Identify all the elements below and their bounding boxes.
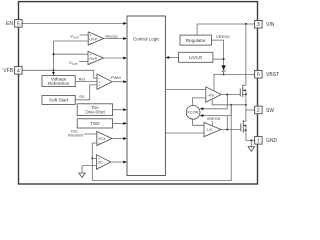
wire LS source to GND pin	[246, 126, 255, 141]
wire UVLO sense	[213, 58, 224, 60]
wire V_UVP to UVP	[80, 34, 89, 36]
svg-text:VUVP: VUVP	[70, 34, 78, 40]
wire ZC minus to ground	[82, 166, 96, 173]
wire UVLO to control logic	[168, 57, 179, 59]
TSD box	[77, 119, 112, 128]
svg-text:+: +	[89, 53, 91, 57]
ground (analog)	[79, 173, 85, 178]
svg-text:VREG5: VREG5	[216, 34, 230, 39]
svg-text:4: 4	[17, 68, 20, 74]
pin VIN	[255, 21, 263, 29]
svg-text:VIN: VIN	[266, 22, 275, 28]
comparator UVP	[88, 32, 103, 45]
svg-text:+: +	[98, 84, 100, 88]
pin SW	[255, 106, 263, 114]
svg-text:UVLO: UVLO	[189, 55, 202, 61]
wire VBST rail	[214, 74, 255, 91]
svg-text:6: 6	[257, 72, 260, 78]
wire VREG5 stub to LS	[211, 121, 213, 126]
svg-text:TSD: TSD	[90, 121, 100, 127]
wire PWM out	[112, 81, 124, 83]
wire SS to PWM	[75, 85, 97, 100]
wire regulator output VREG5	[211, 40, 223, 65]
chip outline	[19, 2, 258, 184]
svg-text:-: -	[98, 164, 100, 169]
svg-text:Regulator: Regulator	[186, 38, 206, 43]
svg-text:One-Shot: One-Shot	[85, 110, 105, 115]
comparator ZC	[96, 155, 110, 170]
svg-text:+: +	[98, 157, 100, 161]
wire OCL out	[112, 138, 124, 140]
wire XCON to LS	[193, 119, 205, 125]
wire HS out to gate	[221, 94, 240, 96]
svg-text:XCON: XCON	[187, 110, 199, 115]
svg-text:Ref: Ref	[79, 76, 86, 81]
driver LS	[204, 122, 221, 136]
svg-text:threshold: threshold	[68, 134, 83, 138]
svg-text:Hiccup: Hiccup	[105, 33, 118, 38]
ground (power)	[248, 147, 254, 152]
wire SW sense net	[92, 105, 231, 181]
svg-text:Control Logic: Control Logic	[133, 37, 160, 42]
svg-text:VBST: VBST	[266, 72, 279, 78]
svg-text:Reference: Reference	[48, 81, 70, 86]
diode D1 bootstrap	[221, 65, 225, 70]
pin EN	[15, 20, 23, 28]
wire HS gate feedback to XCON	[203, 95, 228, 109]
svg-text:VREG5: VREG5	[207, 116, 221, 121]
wire OCL plus input	[92, 142, 97, 144]
wire LS out to gate	[221, 129, 241, 131]
svg-text:PWM: PWM	[111, 75, 121, 80]
wire SW rail	[245, 90, 247, 121]
pin GND	[255, 137, 263, 145]
wire VIN to regulator	[197, 24, 255, 35]
svg-text:3: 3	[257, 22, 260, 28]
pin VBST	[255, 71, 263, 79]
wire HS bottom to SW line	[212, 99, 246, 105]
wire control logic to LS	[165, 132, 204, 134]
wire XCON to HS	[193, 98, 206, 105]
svg-text:HS: HS	[209, 92, 215, 97]
comparator OVP	[88, 51, 103, 64]
wire Ton out	[113, 109, 124, 111]
comparator PWM	[97, 74, 112, 89]
soft start box	[42, 95, 75, 104]
svg-text:OCL: OCL	[98, 137, 106, 141]
svg-text:VOVP: VOVP	[69, 60, 78, 66]
svg-text:SS: SS	[79, 94, 85, 99]
control logic U1 box	[127, 16, 165, 176]
svg-text:+: +	[90, 33, 92, 37]
wire LS gate feedback to XCON	[226, 116, 228, 130]
pin VFB	[15, 67, 23, 75]
regulator box	[180, 35, 211, 45]
svg-text:SW: SW	[266, 108, 274, 114]
svg-text:EN: EN	[6, 21, 13, 27]
wire V_OVP to OVP	[79, 61, 88, 63]
wire OCL threshold	[84, 133, 97, 135]
transistor LS FET	[240, 124, 242, 132]
svg-text:Soft Start: Soft Start	[49, 97, 69, 102]
wire to SW pin	[246, 109, 255, 111]
svg-text:+: +	[98, 142, 100, 146]
svg-text:2: 2	[257, 108, 260, 114]
svg-text:VFB: VFB	[3, 68, 13, 74]
wire TSD out	[113, 122, 124, 124]
svg-text:1: 1	[257, 138, 260, 144]
wire ZC plus input	[92, 157, 96, 159]
svg-text:LS: LS	[207, 127, 212, 132]
wire control logic to HS	[165, 89, 205, 91]
wire UVP out	[104, 38, 124, 40]
node VFB vertical	[53, 41, 55, 73]
voltage reference box	[42, 76, 75, 87]
wire VIN to HS drain	[245, 24, 247, 85]
wire VFB pin to PWM comparator	[22, 70, 97, 78]
wire OVP out	[103, 57, 124, 59]
wire EN to control logic	[22, 22, 124, 24]
comparator OCL	[97, 131, 112, 145]
svg-text:GND: GND	[266, 138, 278, 144]
Ton one-shot box	[77, 104, 112, 116]
transistor HS FET	[239, 89, 241, 97]
wire SW to XCON	[203, 105, 232, 116]
wire ZC out	[111, 161, 124, 163]
svg-text:5: 5	[17, 21, 20, 27]
wire to power ground	[250, 140, 252, 146]
wire Ref to PWM	[75, 81, 97, 83]
circle XCON	[186, 105, 200, 119]
driver HS	[206, 87, 221, 102]
UVLO box	[179, 52, 213, 62]
